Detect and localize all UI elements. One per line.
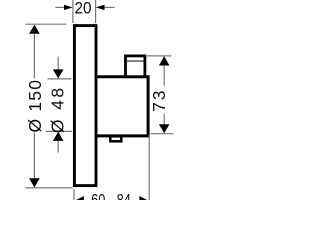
handle cylinder right edge <box>147 75 150 137</box>
dim 73: bottom arrow pointing down <box>163 114 165 125</box>
dim 73: top arrow pointing up <box>159 56 170 65</box>
dim 20: left extension line <box>72 0 74 23</box>
bottom dim: left extension line <box>73 189 75 200</box>
svg-text:60 - 84: 60 - 84 <box>91 191 131 200</box>
notch under handle <box>110 136 121 141</box>
dim 20: left arrow <box>56 6 66 8</box>
select button inner line <box>127 60 144 62</box>
svg-text:Ø 48: Ø 48 <box>48 86 68 134</box>
svg-text:73: 73 <box>149 88 169 111</box>
dim O48: bottom arrow pointing up <box>53 132 64 141</box>
handle cylinder top edge <box>96 75 150 78</box>
dim O150: bottom extension line <box>25 187 72 189</box>
bottom dim: right arrow pointing right <box>139 196 148 206</box>
dim 73: top extension line <box>147 55 172 57</box>
dim 73: bottom extension line <box>151 133 174 135</box>
dim 20: right extension line <box>95 0 97 23</box>
dim O150: dimension line lower segment <box>33 133 35 179</box>
dim O48: top arrow pointing down <box>57 57 59 70</box>
dim O150: bottom arrow <box>29 178 40 187</box>
svg-text:Ø 150: Ø 150 <box>25 79 45 133</box>
select button on handle <box>126 56 145 77</box>
dim O48: top extension line <box>48 78 72 80</box>
plate (side view outline) <box>74 26 96 186</box>
dim O48: bottom extension line <box>46 130 72 132</box>
dim O150: top arrow <box>29 25 40 34</box>
handle cylinder bottom edge <box>96 134 150 137</box>
dim O150: top extension line <box>25 23 66 25</box>
svg-text:20: 20 <box>74 0 91 18</box>
dim O150: dimension line upper segment <box>33 34 35 79</box>
dim 20: right arrow <box>105 6 115 8</box>
bottom dim: right extension line <box>148 135 150 200</box>
bottom dim: left arrow pointing left <box>75 196 84 206</box>
